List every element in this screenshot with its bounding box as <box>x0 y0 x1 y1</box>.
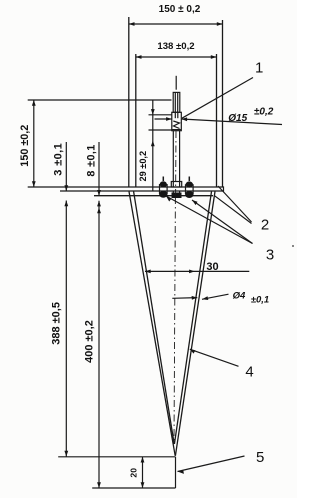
svg-text:30: 30 <box>206 261 218 273</box>
svg-text:150 ±0,2: 150 ±0,2 <box>19 125 31 167</box>
svg-text:388 ±0,5: 388 ±0,5 <box>51 302 63 345</box>
vessel inner left wall <box>135 54 137 187</box>
svg-text:138 ±0,2: 138 ±0,2 <box>157 41 194 52</box>
dimension 8 +-0,1 shaft <box>98 142 100 196</box>
dimension 400 +-0,2 line <box>98 201 100 488</box>
svg-text:150 ± 0,2: 150 ± 0,2 <box>159 4 201 15</box>
vessel outer right wall <box>222 20 224 187</box>
dia 15 dimension line right segment <box>181 119 282 125</box>
pin top tube <box>173 92 180 112</box>
dimension 29 +-0,2 shaft <box>152 100 154 191</box>
bolt right <box>188 177 190 182</box>
svg-text:8 ±0,1: 8 ±0,1 <box>86 144 98 176</box>
callout 4 leader <box>190 349 239 366</box>
bolt left <box>162 177 164 182</box>
svg-text:29 ±0,2: 29 ±0,2 <box>138 151 148 182</box>
plate bottom line B <box>60 190 224 192</box>
vessel outer left wall <box>128 17 130 187</box>
left leg inner <box>134 192 175 445</box>
water level line <box>28 99 172 101</box>
svg-text:2: 2 <box>261 217 269 234</box>
pin centerline above <box>175 76 177 90</box>
svg-text:20: 20 <box>129 468 139 478</box>
tip vertical line <box>175 457 177 488</box>
dia 4 stub arrow <box>172 297 197 300</box>
svg-text:4: 4 <box>245 363 253 380</box>
dimension 138 +-0,2 (inner width) <box>136 56 217 58</box>
svg-text:±0,2: ±0,2 <box>254 106 274 117</box>
svg-text:3: 3 <box>266 247 274 264</box>
dimension 30 <box>145 270 249 272</box>
dimension 3 +-0,1 shaft <box>65 142 67 191</box>
callout 5 leader <box>178 456 245 472</box>
dimension 20 <box>142 457 144 488</box>
pin tube below collar <box>172 131 174 187</box>
svg-text:400 ±0,2: 400 ±0,2 <box>84 320 96 363</box>
svg-text:5: 5 <box>256 449 264 466</box>
dia 15 dimension line left segment <box>155 118 172 120</box>
svg-text:Ø15: Ø15 <box>228 113 247 124</box>
dimension 388 +-0,5 line <box>65 201 67 457</box>
svg-text:3 ±0,1: 3 ±0,1 <box>53 143 65 176</box>
pin below plate / nut <box>172 191 174 193</box>
dia 4 leader <box>202 294 229 299</box>
right leg inner <box>174 192 211 445</box>
29 extension line (collar top) <box>149 114 172 116</box>
dimension 150 +-0,2 (left vertical) <box>33 100 35 187</box>
plate top line A <box>28 186 224 188</box>
left leg outer <box>129 192 175 456</box>
centerline dash-dot <box>175 131 177 196</box>
callout 3 leaders <box>166 196 253 244</box>
pin collar dia15 <box>172 112 182 130</box>
plate right end <box>223 186 225 191</box>
bottom reference line <box>92 487 175 489</box>
callout 1 leader <box>182 78 253 119</box>
svg-text:Ø4: Ø4 <box>233 291 246 302</box>
right leg outer <box>175 192 215 456</box>
29 extension line (collar bottom) <box>149 129 172 131</box>
vessel inner right wall <box>216 54 218 187</box>
svg-text:±0,1: ±0,1 <box>251 295 269 306</box>
dimension 150 +-0,2 (top width) <box>129 23 223 25</box>
stray dot <box>292 245 294 247</box>
tip level line <box>58 456 175 458</box>
svg-text:1: 1 <box>255 60 263 77</box>
clamp bar line C <box>94 195 213 197</box>
pin base collar <box>171 182 181 188</box>
callout 2 leaders <box>218 186 252 222</box>
